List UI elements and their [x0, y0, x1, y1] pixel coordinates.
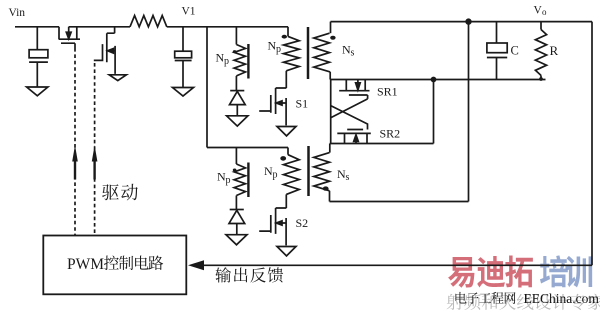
wire right rail: [591, 22, 593, 266]
svg-text:S1: S1: [296, 97, 309, 111]
core bar Np1: [247, 44, 249, 79]
wire output top rail: [331, 21, 593, 23]
wire cross-couple gate SR2: [331, 106, 368, 130]
polarity dot T1 secondary: [330, 36, 335, 40]
diode D2: [229, 210, 245, 235]
inductor L1: [130, 16, 167, 27]
transistor Q1 high-side MOSFET: [59, 27, 80, 48]
winding T2 secondary Ns: [314, 144, 330, 202]
wire V1 rail: [167, 26, 288, 28]
node Vin wire: [15, 26, 59, 28]
svg-text:p: p: [276, 44, 281, 55]
winding Np1b: [234, 164, 245, 196]
arrow drive 2: [92, 145, 98, 161]
svg-text:C: C: [511, 44, 519, 58]
core bar Np1b: [247, 163, 249, 198]
svg-text:SR1: SR1: [377, 85, 398, 99]
transistor S1: [259, 88, 286, 125]
ground Q2: [109, 75, 126, 81]
capacitor C1 at V1: [175, 27, 192, 88]
core T2: [307, 146, 310, 196]
wire secondary return vertical: [468, 22, 470, 202]
junction node SR rail: [431, 77, 437, 83]
wire SR rail jumper: [433, 80, 435, 144]
wire gate drive 2 (dashed): [94, 63, 96, 235]
wire T2 primary top lead: [287, 148, 289, 155]
polarity dot T1 primary: [282, 35, 287, 39]
wire SR2 rail: [330, 143, 434, 145]
wire lower rail: [207, 147, 288, 149]
svg-text:S2: S2: [296, 216, 309, 230]
svg-text:EEChina.com: EEChina.com: [524, 291, 600, 306]
diode D1: [230, 91, 246, 116]
winding Np1: [234, 45, 245, 76]
arrow feedback: [188, 260, 204, 270]
watermark gray slogan text: [447, 294, 600, 310]
transistor S2: [259, 194, 286, 245]
junction node R bottom: [539, 77, 543, 81]
wire secondary-left vertical: [330, 80, 332, 144]
ground Cin: [27, 87, 48, 96]
label 驱动: [102, 184, 138, 201]
transistor SR1: [339, 80, 369, 99]
wire T2 secondary bottom: [330, 201, 469, 203]
wire SR1 rail: [331, 79, 546, 81]
watermark site text: [455, 291, 599, 306]
ground D2: [226, 235, 247, 245]
svg-text:Vin: Vin: [9, 7, 26, 19]
core T1: [307, 27, 310, 79]
winding T2 primary Np: [284, 155, 300, 195]
svg-text:p: p: [224, 56, 229, 67]
wire Np1 to D1: [235, 76, 237, 91]
svg-text:s: s: [346, 172, 350, 183]
winding T1 primary Np: [284, 36, 300, 70]
wire Np1b to D2: [235, 196, 237, 210]
svg-text:V1: V1: [182, 6, 196, 18]
polarity dot T2 secondary: [323, 186, 329, 190]
svg-text:SR2: SR2: [380, 127, 401, 141]
ground S1: [277, 127, 296, 136]
wire switch node: [69, 26, 130, 28]
polarity dot Np1: [233, 50, 237, 53]
svg-text:PWM: PWM: [67, 256, 104, 273]
capacitor Cin: [29, 27, 48, 87]
arrow drive 1: [72, 145, 78, 161]
watermark logo red part: [448, 255, 533, 287]
polarity dot T2 primary: [280, 156, 286, 161]
wire T1 primary to S1: [285, 71, 287, 88]
svg-text:R: R: [550, 43, 559, 58]
winding T1 secondary Ns: [314, 22, 331, 80]
ground D1: [227, 116, 248, 126]
svg-text:p: p: [273, 169, 278, 180]
wire cross-couple gate SR1: [331, 99, 368, 118]
wire Np1 lead: [235, 27, 237, 45]
wire feedback: [204, 264, 592, 266]
label 输出反馈: [215, 267, 283, 282]
svg-text:s: s: [351, 47, 355, 58]
resistor R: [535, 22, 546, 80]
polarity dot Np1b: [233, 169, 237, 172]
svg-text:p: p: [226, 175, 231, 186]
wire left rail: [206, 27, 208, 148]
svg-text:o: o: [542, 7, 547, 17]
wire Np1b lead: [235, 148, 237, 165]
ground C1: [173, 88, 194, 97]
transistor Q2 low-side MOSFET: [94, 27, 115, 74]
junction node output top: [465, 18, 471, 24]
watermark logo blue part: [540, 255, 592, 287]
capacitor C: [487, 22, 507, 80]
transistor SR2: [337, 130, 371, 144]
wire T1 primary top lead: [287, 27, 289, 37]
wire gate drive 1 (dashed): [74, 48, 76, 235]
ground S2: [277, 247, 296, 256]
label PWM控制电路: [67, 256, 163, 273]
block PWM controller: [43, 236, 186, 295]
